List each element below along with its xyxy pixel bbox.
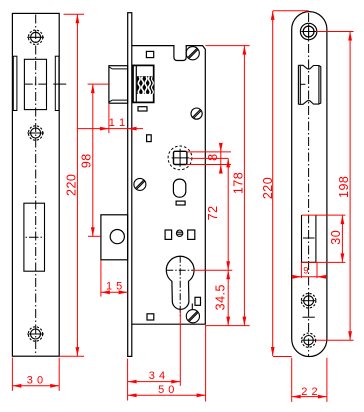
arrows 220 right [271,11,275,20]
svg-text:8: 8 [206,153,220,160]
dim 30 right: line [341,215,343,262]
deadbolt (side view) [101,215,128,260]
svg-text:34.5: 34.5 [214,284,228,310]
spring housing inner column [135,65,137,102]
deadbolt cutout [24,203,45,271]
strike bottom hole bar [302,339,316,341]
screw hole top: inner [31,32,41,42]
arrows 178 [242,46,246,55]
latch cutout [24,59,46,109]
svg-text:1 5: 1 5 [106,281,123,293]
oval hole [173,179,185,197]
strike mid hole outer dashed [301,293,316,308]
strike top hole cross [301,31,316,33]
euro cylinder profile [166,256,194,309]
arrows 220 left [76,14,80,23]
screw hole bottom: dashed outer [28,327,42,341]
screw hole mid: dashed outer [28,126,42,140]
hub pitch circle (dashed) [168,146,192,170]
left plate right side slot [55,56,59,110]
svg-text:98: 98 [80,153,94,168]
svg-text:178: 178 [231,172,245,194]
dim 220 right: line [272,11,274,356]
svg-text:3 4: 3 4 [149,370,166,382]
dim 11: line [77,128,143,130]
screws on lock body [134,47,202,323]
svg-text:198: 198 [337,176,351,198]
strike mid hole inner [304,296,314,306]
dim 178: line [243,46,245,326]
svg-text:2 2: 2 2 [301,386,318,398]
screw hole top: dashed outer [28,30,42,44]
svg-text:30: 30 [329,230,343,245]
latch spring housing [133,65,154,102]
tick between holes [303,316,315,318]
left plate left side slot [13,56,17,110]
svg-text:5 0: 5 0 [158,384,175,396]
arrows 9 [292,275,301,279]
dim 198: line [349,32,351,341]
latch bevel line top [109,67,127,69]
rect under oval [176,201,185,205]
lock case outline [132,46,206,325]
svg-text:9: 9 [303,266,309,277]
svg-text:72: 72 [206,205,220,220]
latch keep cutout [298,65,320,104]
hub square [174,151,187,164]
spring block (hatched) [137,76,153,94]
latch bevel line bottom [109,100,127,102]
svg-text:1 1: 1 1 [109,117,126,129]
strike bottom hole inner [304,336,313,345]
cylinder center line vertical [179,256,181,316]
dim 30 left: line [12,385,59,387]
left plate outline [12,13,59,356]
arrows 72 [226,158,230,167]
tiny screw between squares [176,230,182,236]
screw hole bottom: inner [31,329,41,339]
dim 72 + 34.5 shared line [227,158,229,325]
forend strip [128,13,132,357]
arrows 34.5 [226,270,230,279]
arrows 15 [101,290,110,294]
right screw [191,108,202,119]
screw hole mid: slot bar [27,132,44,134]
dim 15: line [101,291,128,293]
deadbolt circle hole [110,230,124,244]
dim 220 left: line [76,14,78,356]
latch cutout center dash [25,83,47,85]
top square hole [146,51,153,57]
strike plate outline (stadium) [292,12,327,357]
dim 9: line [294,276,326,278]
svg-text:220: 220 [65,174,79,196]
spring box [133,65,154,102]
arrows 98 [91,84,95,93]
deadbolt cutout center dash [26,236,45,238]
svg-text:3 0: 3 0 [27,375,44,387]
left screw [134,178,146,190]
arrows 11 [100,127,109,131]
strike bottom hole outer dashed [302,333,316,347]
notch screw [186,47,199,60]
dim 98: line [92,84,94,236]
arrows 30 right [341,215,345,224]
hub cross horizontal [172,157,190,159]
screw hole top: slot bar [27,36,44,38]
rect right of cylinder stem [195,297,201,305]
strike mid hole cross [301,300,316,302]
red dimension texts [27,117,351,398]
arrows 50 [128,393,137,397]
arrows 22 [292,395,301,399]
keep center tick [301,83,306,85]
screw hole mid: inner [31,128,41,138]
bottom screw center tick [191,304,193,310]
arrows 34 [128,380,137,384]
latch center tick outside plate [53,83,66,85]
follower hub [168,146,192,170]
svg-text:220: 220 [261,177,275,199]
strike plate centerline [308,13,310,356]
strike top hole outer [300,23,316,39]
dim 50: line [128,394,206,396]
dim 34: line [128,381,181,383]
bottom screw [186,310,199,323]
dim 22: line [292,396,327,398]
spring coil whites [138,77,153,95]
strike top hole inner [303,26,314,37]
arrows 30 left [12,384,21,388]
latch bolt head [109,66,128,104]
dim 8: line [220,143,222,174]
hole under spring box [138,107,147,111]
strike slot [302,215,316,262]
square hole left of cylinder [165,230,172,239]
square hole right of cylinder [188,230,195,239]
screw hole bottom: slot bar [27,333,44,335]
cylinder center cross horizontal [166,269,193,271]
arrows 198 [348,32,352,41]
cylinder hole [166,256,200,316]
slot center tick [303,237,315,239]
left plate vertical centerline [35,15,37,356]
arrows 8 [219,143,223,152]
small vertical hole [147,135,152,142]
bottom small square hole [147,314,154,320]
hub cross vertical [179,149,181,167]
